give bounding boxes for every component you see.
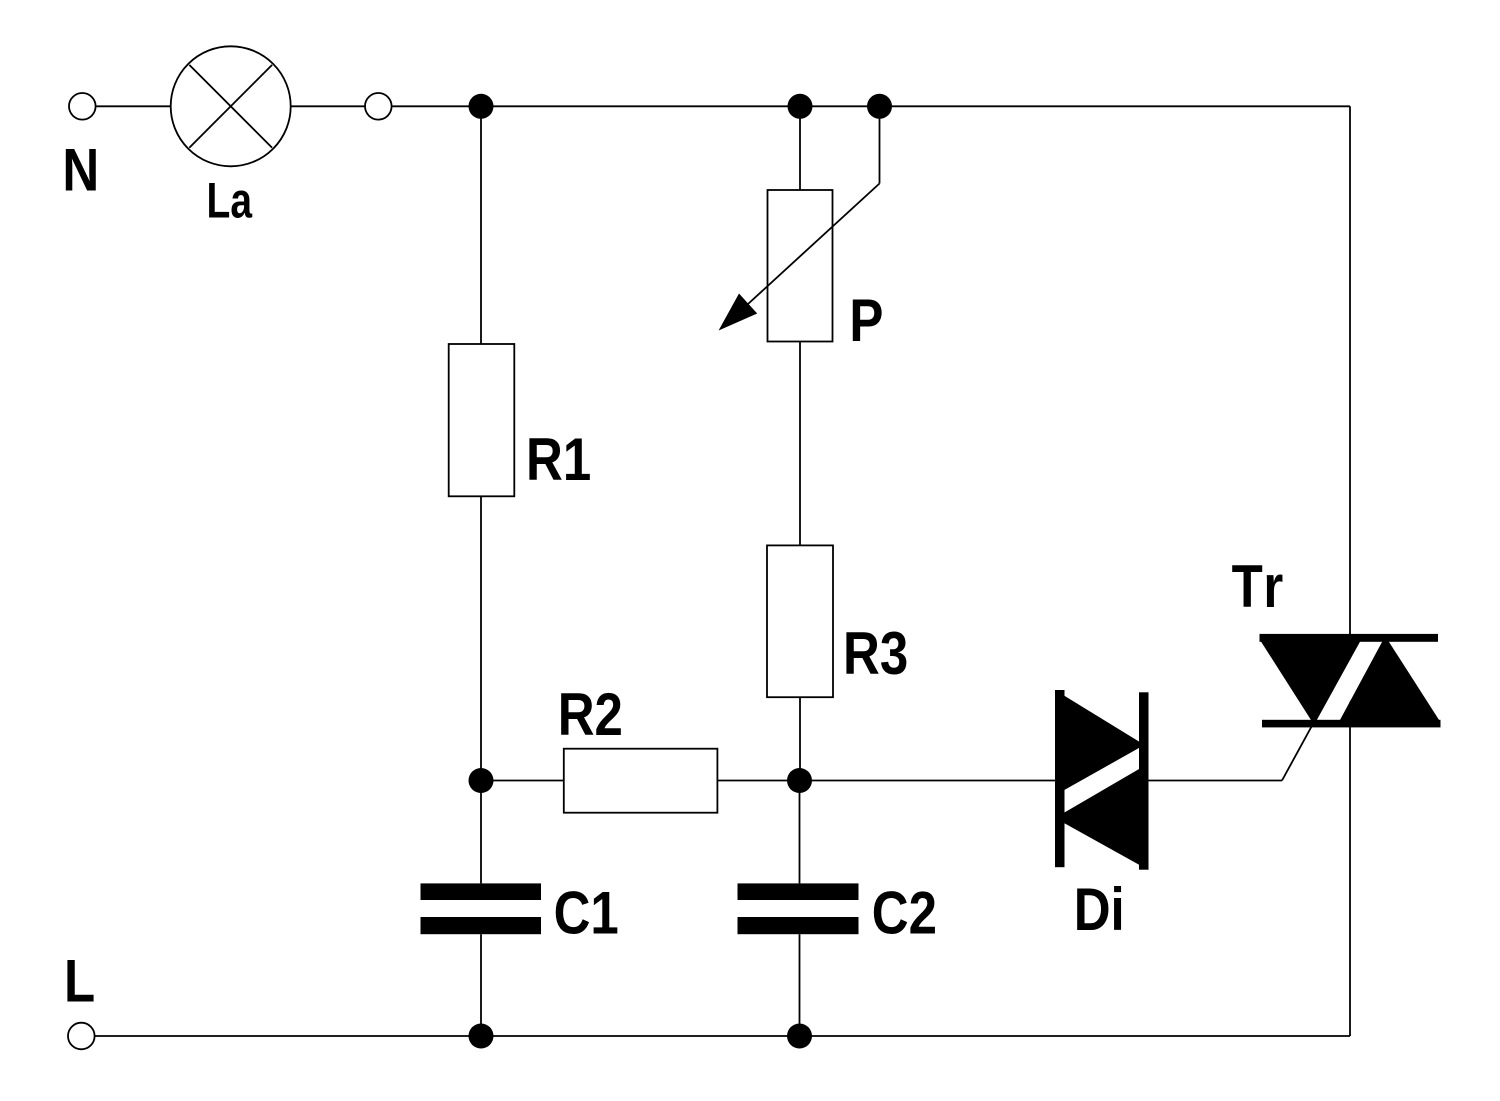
node A bbox=[469, 768, 494, 793]
svg-text:Tr: Tr bbox=[1232, 553, 1287, 620]
svg-text:Di: Di bbox=[1074, 876, 1125, 943]
triac Tr bbox=[1260, 634, 1441, 727]
node top wiper bbox=[867, 94, 892, 119]
diac Di bbox=[1055, 690, 1149, 870]
svg-text:R2: R2 bbox=[558, 681, 623, 748]
svg-text:R3: R3 bbox=[843, 620, 908, 687]
resistor R2 bbox=[564, 749, 718, 813]
wire top node to R1 bbox=[480, 106, 482, 344]
node B bbox=[787, 768, 812, 793]
wire top rail bbox=[392, 105, 1350, 107]
terminal N bbox=[69, 93, 96, 120]
wire bottom rail bbox=[94, 1035, 1350, 1037]
wire node B to diac bbox=[800, 780, 1057, 782]
lamp La bbox=[171, 46, 291, 166]
resistor R3 bbox=[767, 545, 833, 697]
potentiometer P body bbox=[768, 190, 833, 342]
wire C2 to bottom rail bbox=[799, 934, 801, 1036]
svg-text:P: P bbox=[849, 287, 883, 354]
wire C1 to bottom rail bbox=[480, 934, 482, 1036]
svg-text:C1: C1 bbox=[554, 880, 619, 947]
node top P bbox=[788, 94, 813, 119]
svg-text:C2: C2 bbox=[872, 880, 937, 947]
potentiometer wiper arrow bbox=[719, 184, 880, 331]
wire node A to R2 bbox=[481, 780, 564, 782]
node C1 bottom bbox=[469, 1024, 494, 1049]
wire P branch top bbox=[799, 106, 801, 190]
node top R1 bbox=[469, 94, 494, 119]
wire node A to C1 bbox=[480, 781, 482, 884]
wire P to R3 bbox=[799, 342, 801, 546]
wire R1 to node A bbox=[480, 496, 482, 780]
terminal after lamp bbox=[365, 93, 392, 120]
wire node B to C2 bbox=[799, 781, 801, 884]
wire La to right terminal bbox=[291, 105, 365, 107]
terminal L bbox=[68, 1023, 95, 1050]
svg-text:L: L bbox=[64, 948, 95, 1015]
wire R2 to node B bbox=[717, 780, 799, 782]
resistor R1 bbox=[449, 344, 515, 496]
capacitor C2 bbox=[738, 883, 859, 934]
node C2 bottom bbox=[787, 1024, 812, 1049]
wire wiper stem bbox=[879, 106, 881, 183]
wire right vertical rail bbox=[1349, 106, 1351, 1036]
wire N to La bbox=[96, 105, 171, 107]
svg-text:La: La bbox=[207, 172, 253, 229]
wire gate diagonal bbox=[1282, 722, 1314, 781]
wire R3 to node B bbox=[799, 697, 801, 780]
svg-text:N: N bbox=[62, 137, 99, 204]
capacitor C1 bbox=[421, 883, 542, 934]
svg-text:R1: R1 bbox=[526, 426, 591, 493]
wire diac to gate bend bbox=[1149, 780, 1283, 782]
